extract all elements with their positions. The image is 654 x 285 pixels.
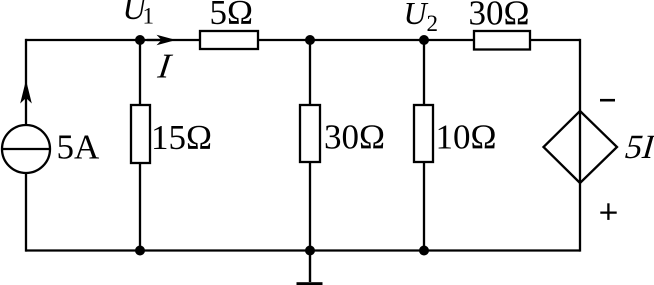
- resistor R1 5ohm: [200, 31, 258, 49]
- svg-text:10Ω: 10Ω: [436, 118, 497, 157]
- current arrow I: [147, 39, 166, 41]
- svg-text:5I: 5I: [624, 129, 654, 166]
- node U1 junction dot: [135, 35, 145, 45]
- wire vertical at node U2: [423, 40, 425, 251]
- svg-text:1: 1: [143, 3, 155, 28]
- current source I1 bar: [2, 148, 50, 150]
- node A junction dot: [305, 35, 315, 45]
- ground bar: [297, 282, 323, 285]
- wire top horizontal: [26, 39, 581, 41]
- wire bottom horizontal: [26, 249, 581, 251]
- wire right vertical: [579, 39, 581, 252]
- current source I1 circle: [2, 125, 50, 173]
- resistor R2 30ohm top: [474, 31, 530, 50]
- bottom junction dot at U2 branch: [419, 246, 429, 256]
- resistor R5 10ohm: [414, 105, 433, 162]
- label minus: [600, 99, 615, 102]
- dependent source 5I diamond: [544, 111, 618, 183]
- node U2 junction dot: [419, 35, 429, 45]
- current source I1 arrow: [20, 80, 32, 104]
- svg-text:5Ω: 5Ω: [210, 0, 254, 32]
- bottom junction dot at middle branch: [305, 246, 315, 256]
- svg-text:U: U: [404, 0, 429, 31]
- wire left vertical upper: [25, 39, 27, 126]
- label plus: [600, 211, 616, 213]
- svg-text:5A: 5A: [57, 128, 101, 167]
- svg-text:30Ω: 30Ω: [324, 118, 385, 157]
- svg-text:30Ω: 30Ω: [469, 0, 530, 32]
- bottom junction dot at U1 branch: [135, 246, 145, 256]
- wire left vertical lower: [25, 172, 27, 252]
- resistor R4 30ohm middle: [300, 105, 320, 162]
- svg-text:2: 2: [427, 11, 439, 36]
- wire vertical at middle node: [309, 40, 311, 251]
- ground stem: [309, 251, 311, 283]
- wire vertical at node U1: [139, 40, 141, 251]
- svg-text:15Ω: 15Ω: [151, 118, 212, 157]
- resistor R3 15ohm: [131, 105, 150, 163]
